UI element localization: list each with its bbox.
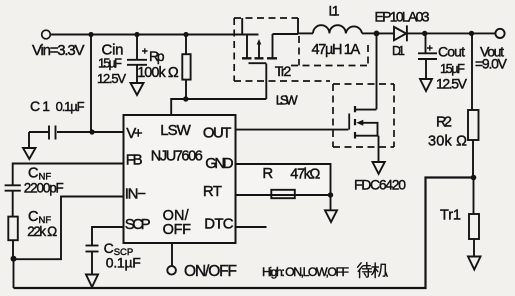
svg-text:RT: RT <box>203 183 222 200</box>
svg-text:GND: GND <box>205 155 234 172</box>
svg-text:D1: D1 <box>392 44 405 58</box>
svg-text:47kΩ: 47kΩ <box>290 167 320 183</box>
svg-text:OFF: OFF <box>163 222 192 238</box>
svg-text:EP10LA03: EP10LA03 <box>375 9 430 25</box>
svg-text:0.1µF: 0.1µF <box>106 254 141 270</box>
svg-text:12.5V: 12.5V <box>436 76 468 92</box>
svg-text:15µF: 15µF <box>98 56 122 71</box>
svg-text:L1: L1 <box>329 3 340 19</box>
svg-text:Cout: Cout <box>438 43 465 59</box>
svg-text:2200pF: 2200pF <box>24 181 64 196</box>
svg-text:SCP: SCP <box>125 216 151 233</box>
svg-text:Vin=3.3V: Vin=3.3V <box>32 42 85 59</box>
svg-text:OUT: OUT <box>203 125 232 142</box>
svg-text:NJU7606: NJU7606 <box>151 149 203 165</box>
svg-text:FDC6420: FDC6420 <box>354 177 406 193</box>
svg-text:=9.0V: =9.0V <box>475 56 508 72</box>
svg-text:0.1µF: 0.1µF <box>56 99 85 114</box>
svg-text:R: R <box>262 165 273 182</box>
svg-text:12.5V: 12.5V <box>97 71 126 86</box>
svg-text:100k Ω: 100k Ω <box>137 65 179 81</box>
svg-text:FB: FB <box>126 152 143 169</box>
svg-text:ON/OFF: ON/OFF <box>184 263 237 280</box>
svg-text:C1: C1 <box>30 98 50 114</box>
svg-text:Tr1: Tr1 <box>440 208 461 224</box>
svg-text:R2: R2 <box>436 115 452 131</box>
svg-text:30k Ω: 30k Ω <box>428 134 467 150</box>
svg-text:Rp: Rp <box>149 48 165 64</box>
svg-text:LSW: LSW <box>160 122 191 139</box>
svg-text:15µF: 15µF <box>440 61 465 76</box>
svg-text:DTC: DTC <box>204 216 234 233</box>
svg-text:V+: V+ <box>126 125 143 142</box>
svg-text:IN−: IN− <box>125 186 147 203</box>
svg-text:LSW: LSW <box>276 92 299 107</box>
svg-text:High: ON,LOW,OFF: High: ON,LOW,OFF <box>262 265 349 279</box>
svg-text:Tr2: Tr2 <box>275 63 292 79</box>
svg-text:47µH 1A: 47µH 1A <box>312 42 361 58</box>
svg-text:22k Ω: 22k Ω <box>27 224 57 239</box>
